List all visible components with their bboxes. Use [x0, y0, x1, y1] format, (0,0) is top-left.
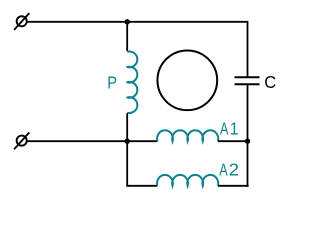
svg-text:A: A — [219, 160, 228, 180]
wire coil A1 to right junction — [218, 140, 248, 142]
junction node (top, P tap) — [125, 19, 130, 24]
capacitor C — [235, 77, 260, 84]
inductor A2 (auxiliary winding 2) — [157, 175, 218, 186]
terminal X2 (phase input, bottom) — [14, 132, 29, 149]
terminal X1 (phase input, top) — [14, 13, 29, 30]
svg-text:2: 2 — [229, 160, 239, 180]
wire coil P to bottom junction — [126, 113, 128, 141]
wire bottom horizontal (terminal to coil A1) — [28, 140, 158, 142]
svg-text:1: 1 — [230, 119, 239, 139]
wire right vertical lower (capacitor to bottom corner) — [247, 84, 249, 187]
motor rotor circle — [157, 50, 217, 110]
inductor A1 (auxiliary winding 1) — [157, 130, 218, 141]
inductor P (main winding) — [127, 52, 137, 113]
wire from top junction down to coil P — [126, 22, 128, 51]
wire coil A2 to right corner — [218, 185, 249, 187]
wire left vertical drop to A2 branch — [126, 141, 128, 186]
svg-text:A: A — [220, 119, 229, 139]
junction node (left, A tap) — [125, 139, 130, 144]
wire right vertical upper (to capacitor) — [247, 21, 249, 77]
svg-text:C: C — [264, 71, 276, 92]
junction node (right) — [245, 139, 250, 144]
wire bottom branch horizontal (to coil A2) — [126, 185, 157, 187]
wire top horizontal — [28, 21, 247, 23]
svg-text:P: P — [107, 73, 117, 93]
